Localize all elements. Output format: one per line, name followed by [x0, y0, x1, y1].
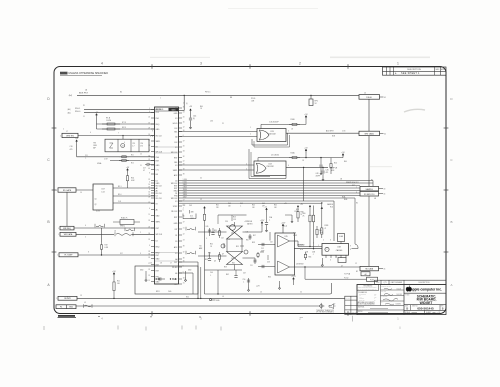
svg-text:RST: RST [174, 217, 177, 219]
svg-text:1/4 NE592: 1/4 NE592 [297, 244, 305, 246]
svg-text:+5V: +5V [300, 204, 303, 206]
svg-text:D2: D2 [156, 240, 158, 242]
svg-text:2B: 2B [340, 179, 342, 181]
svg-text:J7: J7 [66, 131, 68, 133]
svg-text:470PF: 470PF [316, 175, 321, 177]
svg-text:J2: J2 [364, 92, 366, 94]
svg-text:U17B: U17B [96, 210, 100, 212]
svg-text:22: 22 [183, 234, 185, 236]
svg-text:RD CLK: RD CLK [156, 135, 163, 137]
svg-text:14: 14 [260, 292, 262, 294]
svg-text:1: 1 [442, 312, 443, 314]
svg-text:R41: R41 [216, 204, 219, 206]
svg-text:RD0-1: RD0-1 [75, 108, 80, 110]
svg-text:R62: R62 [226, 274, 229, 276]
svg-text:150B: 150B [93, 145, 97, 147]
svg-text:R12: R12 [131, 163, 134, 165]
svg-text:77B: 77B [93, 143, 96, 145]
svg-text:4B: 4B [374, 198, 376, 200]
svg-text:14: 14 [80, 192, 82, 194]
svg-text:050-5014-B: 050-5014-B [417, 306, 434, 310]
svg-text:.1: .1 [85, 157, 86, 159]
svg-text:16: 16 [183, 130, 185, 132]
svg-text:30: 30 [183, 261, 185, 263]
svg-text:HOLD: HOLD [173, 123, 178, 125]
svg-text:1K: 1K [291, 128, 293, 130]
svg-text:R55: R55 [236, 246, 239, 248]
svg-text:OF: OF [438, 312, 440, 314]
svg-text:RD EN: RD EN [156, 109, 162, 111]
svg-text:47: 47 [325, 228, 327, 230]
svg-text:PH0: PH0 [156, 157, 159, 159]
svg-text:+12V: +12V [281, 222, 286, 224]
svg-text:1/4LS132/P: 1/4LS132/P [269, 122, 279, 124]
svg-text:SAMPLE/HOLD: SAMPLE/HOLD [346, 181, 359, 184]
svg-text:13: 13 [80, 295, 82, 297]
svg-text:WRT EN: WRT EN [66, 135, 74, 137]
svg-text:3: 3 [200, 62, 202, 66]
svg-text:SD4: SD4 [184, 189, 187, 191]
svg-text:C45: C45 [326, 169, 329, 171]
svg-text:R66: R66 [268, 276, 271, 278]
svg-text:SEL: SEL [174, 131, 177, 133]
svg-text:Q2: Q2 [95, 204, 97, 206]
svg-text:B4: B4 [120, 92, 122, 94]
svg-text:1K: 1K [302, 160, 304, 162]
svg-text:R30: R30 [214, 230, 217, 232]
svg-text:C1: C1 [222, 123, 224, 125]
svg-text:470PF: 470PF [293, 235, 297, 237]
svg-text:23: 23 [148, 159, 150, 161]
svg-text:RD DATA: RD DATA [365, 268, 373, 271]
svg-text:1: 1 [58, 234, 59, 236]
svg-text:P4: P4 [60, 307, 62, 309]
svg-text:SD6: SD6 [184, 194, 187, 196]
svg-text:74LS132: 74LS132 [266, 166, 273, 168]
svg-text:T10: T10 [199, 245, 202, 247]
svg-text:SD5: SD5 [184, 192, 187, 194]
svg-text:29: 29 [148, 220, 150, 222]
svg-text:R61: R61 [320, 230, 323, 232]
svg-text:J1: J1 [83, 116, 85, 118]
svg-text:1K: 1K [228, 239, 230, 241]
svg-text:40: 40 [148, 168, 150, 170]
svg-text:R56: R56 [246, 239, 249, 241]
svg-text:BNE: BNE [344, 199, 347, 201]
svg-text:B2: B2 [356, 271, 358, 273]
svg-text:C52: C52 [270, 242, 273, 244]
svg-text:L4: L4 [114, 230, 116, 232]
svg-text:D2: D2 [175, 108, 177, 110]
svg-text:37: 37 [183, 141, 185, 143]
svg-text:16: 16 [148, 192, 150, 194]
svg-text:FINISH: FINISH [358, 311, 362, 313]
svg-text:18: 18 [148, 239, 150, 241]
svg-text:9: 9 [149, 245, 150, 247]
svg-text:RST: RST [156, 255, 159, 257]
svg-text:CTL: CTL [174, 284, 177, 286]
svg-text:18: 18 [148, 257, 150, 259]
svg-text:R7 1K: R7 1K [122, 122, 126, 124]
svg-text:RST: RST [156, 160, 159, 162]
svg-text:WIDGET: WIDGET [420, 301, 433, 305]
svg-text:R57: R57 [253, 235, 256, 237]
svg-text:R54: R54 [205, 259, 208, 261]
svg-text:C41: C41 [246, 231, 249, 233]
svg-text:1K: 1K [210, 246, 212, 248]
svg-text:23: 23 [148, 269, 150, 271]
svg-text:RPLY: RPLY [156, 291, 160, 293]
svg-text:470: 470 [70, 149, 73, 151]
svg-text:CTL: CTL [156, 169, 159, 171]
svg-text:74LS132: 74LS132 [268, 134, 275, 136]
svg-text:2: 2 [60, 135, 61, 137]
svg-text:03: 03 [384, 189, 386, 191]
svg-text:A1: A1 [175, 272, 177, 275]
svg-text:38: 38 [183, 258, 185, 260]
svg-text:SHEET: SHEET [426, 312, 431, 314]
svg-text:PH1: PH1 [156, 118, 159, 120]
svg-text:B: B [450, 220, 452, 224]
svg-text:C15: C15 [132, 143, 135, 145]
svg-text:25: 25 [148, 275, 150, 277]
svg-text:(14,4): (14,4) [283, 226, 287, 228]
svg-text:DESCRIPTION: DESCRIPTION [407, 69, 421, 71]
svg-text:1/16: 1/16 [210, 121, 213, 123]
svg-text:28: 28 [148, 251, 150, 253]
svg-text:2: 2 [299, 62, 301, 66]
svg-text:R12B: R12B [325, 225, 329, 227]
svg-text:SD1: SD1 [184, 182, 187, 184]
svg-text:B: B [406, 307, 408, 311]
svg-text:A0: A0 [156, 208, 158, 211]
svg-text:12: 12 [140, 154, 142, 156]
svg-text:GND: GND [69, 307, 74, 309]
svg-text:10-21-83: 10-21-83 [397, 294, 402, 296]
svg-text:19: 19 [150, 262, 152, 264]
svg-text:WR CLK: WR CLK [171, 152, 178, 154]
svg-text:22K: 22K [216, 207, 219, 209]
svg-text:4.7: 4.7 [132, 146, 134, 148]
svg-text:C42: C42 [240, 203, 243, 205]
svg-text:1/4 LS132: 1/4 LS132 [271, 155, 279, 157]
svg-text:R42: R42 [228, 203, 231, 205]
svg-text:66F: 66F [93, 147, 96, 149]
svg-text:C11: C11 [85, 155, 88, 157]
svg-text:U14: U14 [190, 216, 193, 218]
svg-text:32: 32 [183, 156, 185, 158]
svg-text:R44: R44 [252, 204, 255, 206]
svg-text:R40: R40 [344, 161, 347, 163]
svg-text:X1: X1 [122, 145, 124, 147]
svg-text:R40: R40 [200, 106, 203, 108]
svg-text:R59: R59 [296, 209, 299, 211]
svg-text:A: A [450, 283, 452, 287]
svg-text:WR CLK: WR CLK [156, 151, 163, 153]
svg-text:P105: P105 [251, 98, 255, 100]
svg-text:Q5: Q5 [231, 232, 233, 234]
svg-text:R21: R21 [117, 280, 120, 282]
svg-text:TO P1A: TO P1A [344, 272, 351, 275]
svg-text:670-0201: 670-0201 [345, 298, 350, 300]
svg-text:4: 4 [149, 182, 150, 184]
svg-text:R11: R11 [131, 155, 134, 157]
svg-text:WR REQ: WR REQ [63, 228, 71, 230]
svg-text:29: 29 [183, 164, 185, 166]
svg-text:22: 22 [183, 161, 185, 163]
svg-text:RD 0: RD 0 [118, 194, 122, 196]
svg-text:RD CLK: RD CLK [156, 198, 163, 200]
svg-text:R58: R58 [252, 242, 255, 244]
svg-text:02: 02 [384, 133, 386, 135]
svg-text:Q1: Q1 [95, 198, 97, 200]
svg-text:U17: U17 [101, 189, 104, 191]
svg-text:+12V: +12V [260, 220, 265, 222]
svg-text:RD EN: RD EN [172, 267, 178, 269]
svg-text:TITLE: TITLE [405, 294, 409, 296]
svg-text:BUS PKT: BUS PKT [79, 92, 89, 94]
svg-text:17: 17 [170, 262, 172, 264]
svg-text:470: 470 [326, 172, 329, 174]
svg-text:32: 32 [148, 179, 150, 181]
svg-text:apple computer inc.: apple computer inc. [411, 288, 442, 292]
svg-text:10K: 10K [228, 205, 231, 207]
svg-text:RD 1: RD 1 [118, 186, 122, 188]
svg-text:U1B: U1B [293, 232, 296, 234]
svg-text:19: 19 [183, 169, 185, 171]
svg-text:FLT: FLT [120, 253, 123, 255]
svg-text:C47: C47 [243, 272, 246, 274]
svg-text:1SL66: 1SL66 [366, 97, 371, 99]
svg-text:5: 5 [183, 210, 184, 212]
svg-text:WR DATA: WR DATA [64, 233, 73, 236]
svg-text:11: 11 [149, 214, 151, 216]
svg-text:20: 20 [200, 178, 202, 180]
svg-text:14: 14 [148, 184, 150, 186]
svg-text:R59: R59 [224, 267, 227, 269]
svg-text:01: 01 [384, 97, 386, 99]
svg-text:C42: C42 [183, 205, 186, 207]
svg-text:SD7: SD7 [184, 197, 187, 199]
svg-text:18: 18 [183, 278, 185, 280]
svg-text:R65: R65 [309, 256, 312, 258]
svg-text:SD0: SD0 [184, 179, 187, 181]
svg-text:27: 27 [183, 200, 185, 202]
svg-text:21: 21 [183, 228, 185, 230]
svg-text:WRT DATA: WRT DATA [364, 133, 374, 136]
svg-text:R64: R64 [232, 263, 235, 265]
svg-text:SEL: SEL [174, 162, 177, 164]
svg-text:Q8: Q8 [214, 260, 216, 262]
svg-text:(A4): (A4) [69, 94, 73, 97]
svg-text:11: 11 [140, 165, 142, 167]
svg-text:.1: .1 [206, 238, 207, 240]
svg-text:1: 1 [397, 62, 399, 66]
svg-text:23: 23 [183, 240, 185, 242]
svg-text:SAMPLE: SAMPLE [366, 188, 374, 191]
svg-text:CLK: CLK [118, 201, 121, 203]
svg-text:DESCRIPTION: DESCRIPTION [419, 282, 431, 284]
svg-text:19: 19 [148, 187, 150, 189]
svg-text:C40: C40 [206, 226, 209, 228]
svg-text:10-3-83: 10-3-83 [397, 288, 402, 290]
svg-text:22: 22 [183, 102, 185, 104]
svg-text:2: 2 [149, 150, 150, 152]
svg-text:R13: R13 [233, 217, 236, 219]
svg-text:C43: C43 [262, 203, 265, 205]
svg-text:.1: .1 [210, 275, 211, 277]
svg-text:P2 B2: P2 B2 [370, 279, 374, 281]
svg-text:24: 24 [183, 112, 185, 114]
svg-text:39: 39 [183, 246, 185, 248]
svg-text:CLKM: CLKM [106, 120, 111, 122]
svg-text:6: 6 [183, 135, 184, 137]
svg-text:C16: C16 [140, 143, 143, 145]
svg-text:USED ON: USED ON [352, 311, 357, 313]
svg-text:26: 26 [148, 197, 150, 199]
svg-text:1K: 1K [301, 214, 303, 216]
svg-text:A0: A0 [175, 258, 177, 261]
svg-text:R8 1K: R8 1K [122, 127, 126, 129]
svg-text:1/4 NE592: 1/4 NE592 [296, 263, 304, 265]
svg-text:20: 20 [148, 117, 150, 119]
svg-text:C52: C52 [261, 248, 264, 250]
svg-text:A0: A0 [175, 135, 177, 138]
svg-text:R10B: R10B [291, 119, 295, 121]
svg-text:B2B: B2B [300, 249, 303, 251]
svg-text:U15: U15 [285, 236, 288, 238]
svg-text:WR CLK: WR CLK [171, 198, 178, 200]
svg-text:RB: RB [230, 97, 232, 99]
svg-text:12: 12 [183, 127, 185, 129]
svg-text:RD SMPL PLS: RD SMPL PLS [364, 194, 374, 196]
svg-text:6: 6 [149, 208, 150, 210]
svg-text:P1: P1 [83, 105, 85, 107]
svg-text:37: 37 [183, 222, 185, 224]
svg-text:8: 8 [149, 173, 150, 175]
svg-text:WR CLK: WR CLK [156, 234, 163, 236]
svg-text:10K: 10K [274, 207, 277, 209]
svg-text:BKT: BKT [352, 185, 355, 187]
svg-text:SMPL: SMPL [173, 170, 178, 172]
svg-text:1: 1 [56, 298, 57, 300]
svg-text:L13: L13 [102, 192, 105, 194]
svg-text:15: 15 [148, 280, 150, 282]
svg-text:18: 18 [160, 262, 162, 264]
svg-text:RST: RST [174, 157, 177, 159]
svg-text:C6B: C6B [312, 252, 315, 254]
svg-text:1: 1 [57, 255, 58, 257]
svg-text:C51: C51 [250, 265, 253, 267]
svg-text:05: 05 [384, 269, 386, 271]
svg-text:9: 9 [149, 189, 150, 191]
svg-text:6: 6 [183, 272, 184, 274]
svg-text:U18: U18 [337, 247, 340, 249]
svg-text:04: 04 [384, 194, 386, 196]
svg-text:R52: R52 [210, 243, 213, 245]
svg-text:B: B [442, 307, 444, 311]
svg-text:SEE SHEET 1: SEE SHEET 1 [401, 72, 420, 75]
svg-text:2K: 2K [303, 216, 305, 218]
svg-text:CA3046: CA3046 [336, 249, 343, 252]
svg-text:C44: C44 [221, 237, 224, 239]
svg-text:RD GATE: RD GATE [63, 189, 72, 192]
svg-text:Q6: Q6 [231, 258, 233, 260]
svg-text:INT: INT [175, 229, 178, 231]
svg-text:PKT: PKT [174, 262, 177, 264]
svg-text:10K: 10K [252, 207, 255, 209]
svg-text:32: 32 [183, 252, 185, 254]
svg-text:31: 31 [183, 283, 185, 285]
svg-text:2 1B: 2 1B [342, 131, 345, 133]
svg-text:+12V: +12V [291, 276, 296, 278]
svg-text:+5V: +5V [284, 203, 287, 205]
svg-text:C46: C46 [210, 272, 213, 274]
svg-text:A/D WRT: A/D WRT [326, 130, 334, 133]
svg-text:1K: 1K [200, 108, 202, 110]
svg-text:R45: R45 [274, 204, 277, 206]
svg-text:RD CLK: RD CLK [171, 211, 178, 213]
svg-text:RST: RST [156, 228, 159, 230]
svg-text:Q7: Q7 [222, 254, 224, 256]
svg-text:1 3 1: 1 3 1 [294, 211, 298, 213]
svg-text:R10: R10 [334, 162, 337, 164]
svg-text:CHECKED: CHECKED [381, 296, 387, 298]
svg-text:R5B: R5B [301, 212, 304, 214]
svg-text:470: 470 [140, 146, 143, 148]
svg-text:C43: C43 [189, 205, 192, 207]
svg-text:E2: E2 [356, 202, 358, 204]
svg-text:2: 2 [56, 190, 57, 192]
svg-text:1: 1 [58, 228, 59, 230]
svg-text:39: 39 [183, 174, 185, 176]
svg-text:.1: .1 [243, 282, 244, 284]
svg-text:PKT 0.5: PKT 0.5 [205, 92, 211, 94]
svg-text:C50: C50 [243, 279, 246, 281]
svg-text:L6: L6 [222, 296, 224, 298]
svg-text:16: 16 [183, 122, 185, 124]
svg-text:B2B: B2B [332, 136, 335, 138]
svg-text:10: 10 [300, 292, 302, 294]
svg-text:.1: .1 [240, 205, 241, 207]
svg-text:SD2: SD2 [184, 184, 187, 186]
svg-text:12: 12 [355, 263, 357, 265]
svg-text:34: 34 [183, 151, 185, 153]
svg-text:SMPL: SMPL [156, 141, 161, 143]
svg-text:20: 20 [183, 117, 185, 119]
svg-text:C53: C53 [267, 262, 270, 264]
svg-text:FLT DMP: FLT DMP [65, 255, 74, 257]
svg-text:E1: E1 [371, 179, 373, 181]
svg-text:C17: C17 [143, 168, 146, 170]
svg-text:10/26/83: 10/26/83 [396, 303, 401, 305]
svg-text:E20: E20 [186, 296, 189, 298]
svg-text:4: 4 [101, 62, 103, 66]
svg-text:12: 12 [200, 199, 202, 201]
svg-text:SYNC: SYNC [173, 206, 178, 208]
svg-text:20: 20 [183, 146, 185, 148]
svg-text:D1: D1 [175, 235, 177, 237]
svg-text:RST: RST [156, 270, 159, 272]
svg-text:1.5K: 1.5K [233, 219, 236, 221]
svg-text:4.7: 4.7 [143, 170, 145, 172]
svg-text:C39: C39 [225, 221, 228, 223]
svg-text:RD0-0: RD0-0 [75, 111, 80, 113]
svg-text:SMPL: SMPL [156, 221, 161, 223]
svg-text:L5: L5 [84, 302, 86, 304]
svg-text:SD3: SD3 [184, 187, 187, 189]
svg-text:C48: C48 [316, 173, 319, 175]
